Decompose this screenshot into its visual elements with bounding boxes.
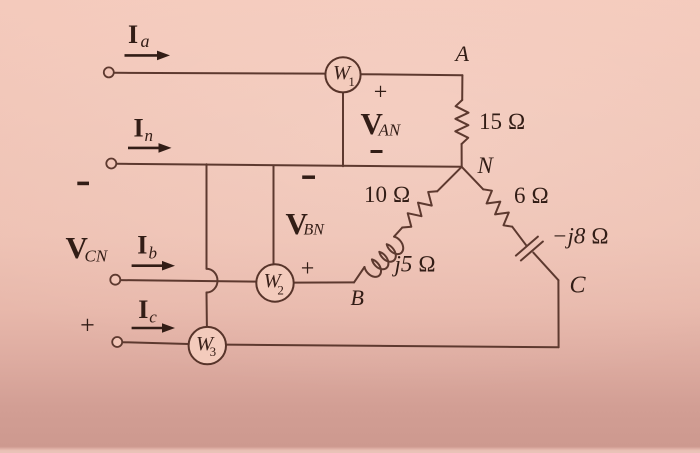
- terminal c: [112, 337, 122, 347]
- minus VAN: [371, 150, 383, 153]
- wire phase-b W2 to corner B: [294, 281, 354, 283]
- wire W1 voltage drop: [342, 92, 344, 166]
- wire node N to 6-ohm: [462, 167, 484, 190]
- svg-text:c: c: [149, 308, 157, 327]
- minus VCN: [77, 182, 89, 186]
- wire neutral line: [116, 164, 462, 167]
- wire 6-ohm to capacitor: [512, 227, 526, 246]
- minus VBN: [302, 175, 315, 179]
- wire B corner diagonal: [354, 267, 365, 282]
- svg-text:C: C: [570, 273, 587, 299]
- svg-text:N: N: [477, 153, 495, 178]
- svg-text:j5 Ω: j5 Ω: [392, 252, 436, 277]
- wire W2 voltage drop: [273, 166, 275, 265]
- label current In: [134, 114, 154, 146]
- wattmeter W2: [256, 264, 293, 301]
- arrow Ib: [132, 261, 175, 271]
- wire hop branch upper: [206, 164, 208, 268]
- terminal a: [104, 67, 114, 77]
- arrow Ia: [125, 51, 171, 61]
- wire coil to 10-ohm: [394, 228, 402, 237]
- svg-text:I: I: [137, 231, 147, 260]
- svg-text:I: I: [128, 20, 138, 49]
- svg-text:a: a: [141, 31, 150, 51]
- svg-text:BN: BN: [304, 222, 326, 239]
- svg-text:B: B: [351, 285, 364, 310]
- label current Ic: [138, 295, 157, 327]
- label current Ib: [137, 231, 157, 263]
- wire hop over phase-b: [207, 269, 218, 293]
- capacitor -j8 plate 1: [516, 237, 538, 256]
- label current Ia: [128, 20, 150, 51]
- svg-text:A: A: [454, 41, 470, 66]
- wire bottom return: [226, 345, 559, 348]
- wire phase-b left segment: [120, 280, 256, 282]
- svg-text:+: +: [301, 256, 315, 282]
- svg-text:I: I: [134, 114, 144, 143]
- wire capacitor to corner C: [533, 253, 558, 281]
- inductor j5 ohm: [365, 237, 404, 277]
- svg-text:−j8 Ω: −j8 Ω: [552, 224, 609, 249]
- resistor 10 ohm: [402, 191, 437, 227]
- wire C vertical: [557, 280, 559, 347]
- wire hop branch lower: [206, 293, 208, 328]
- svg-text:10 Ω: 10 Ω: [364, 182, 410, 207]
- wire 10-ohm to node N: [437, 167, 462, 192]
- svg-text:CN: CN: [85, 247, 109, 266]
- svg-text:3: 3: [210, 344, 217, 359]
- wire phase-a left segment: [114, 72, 326, 75]
- terminal n: [106, 159, 116, 169]
- wattmeter W3: [189, 327, 226, 364]
- label voltage VAN: [361, 106, 402, 141]
- terminal b: [110, 275, 120, 285]
- wire phase-c left segment: [122, 342, 188, 344]
- label voltage VCN: [66, 230, 109, 266]
- svg-text:I: I: [138, 295, 148, 324]
- svg-text:15 Ω: 15 Ω: [479, 109, 525, 134]
- wattmeter W1: [325, 57, 360, 92]
- resistor 6 ohm: [483, 189, 512, 226]
- wire phase-a right segment: [361, 74, 463, 75]
- svg-text:2: 2: [277, 282, 284, 297]
- svg-text:+: +: [80, 311, 95, 340]
- svg-text:AN: AN: [378, 121, 402, 140]
- svg-text:n: n: [145, 126, 154, 145]
- arrow Ic: [132, 323, 175, 333]
- capacitor -j8 plate 2: [521, 242, 543, 261]
- label voltage VBN: [286, 206, 326, 241]
- svg-text:1: 1: [348, 74, 355, 89]
- svg-text:+: +: [374, 80, 388, 106]
- arrow In: [128, 143, 172, 153]
- svg-text:b: b: [149, 244, 158, 263]
- wire 15-ohm to node N: [461, 144, 463, 167]
- svg-text:6 Ω: 6 Ω: [514, 183, 549, 208]
- wire corner A down to 15-ohm: [461, 75, 463, 100]
- resistor 15 ohm: [455, 100, 468, 144]
